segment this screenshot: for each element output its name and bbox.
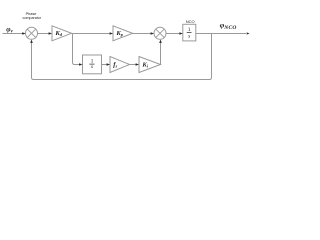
- svg-text:s: s: [188, 33, 190, 39]
- svg-text:NCO: NCO: [186, 19, 195, 24]
- svg-text:comparator: comparator: [22, 16, 41, 20]
- svg-text:1: 1: [188, 27, 191, 33]
- svg-text:s: s: [91, 64, 93, 70]
